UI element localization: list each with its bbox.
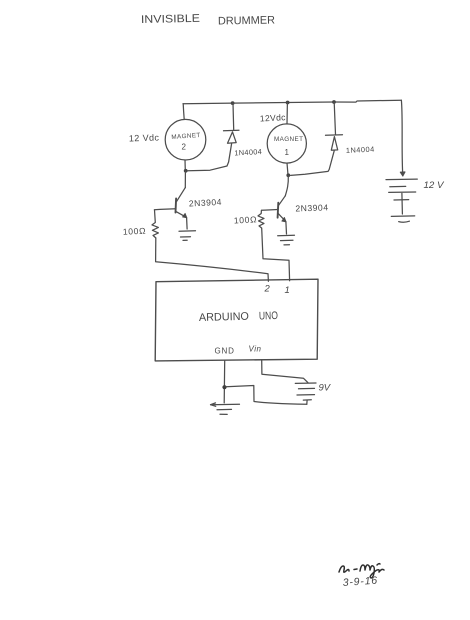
wire magnet1 bottom to node bbox=[287, 163, 288, 175]
node junction dot magnet1 tap bbox=[286, 101, 290, 105]
ground below 12V battery bbox=[391, 215, 414, 218]
diode D1 1N4004 bbox=[334, 102, 335, 134]
wire Q2 emitter down bbox=[186, 218, 189, 229]
signature scribble bbox=[339, 564, 384, 578]
wire node to Q1 collector bbox=[285, 176, 288, 196]
node junction dot below magnet2 bbox=[184, 169, 188, 173]
svg-text:1N4004: 1N4004 bbox=[346, 144, 375, 154]
node junction dot below magnet1 bbox=[286, 173, 290, 177]
diode D2 1N4004 bbox=[232, 103, 235, 129]
svg-text:3-9-16: 3-9-16 bbox=[342, 575, 378, 589]
wire top rail bbox=[183, 100, 401, 104]
svg-text:12 V: 12 V bbox=[424, 180, 446, 191]
svg-text:MAGNET: MAGNET bbox=[274, 136, 303, 143]
transistor Q1 2N3904 bbox=[279, 196, 286, 205]
wire rail to magnet1 top bbox=[286, 103, 288, 124]
svg-text:1N4004: 1N4004 bbox=[234, 147, 262, 157]
battery BT2 9V bbox=[295, 382, 316, 384]
magnet M1 coil circle bbox=[267, 124, 306, 163]
svg-text:2N3904: 2N3904 bbox=[189, 197, 223, 209]
wire GND pin down to ground bbox=[223, 361, 226, 403]
wire 9V negative back to GND node bbox=[226, 386, 307, 405]
resistor R1 100 ohm bbox=[258, 211, 264, 229]
wire rail left drop to magnet2 bbox=[183, 104, 184, 120]
svg-text:ARDUINO: ARDUINO bbox=[199, 311, 250, 324]
wire node to Q2 collector bbox=[184, 171, 186, 187]
svg-text:100Ω: 100Ω bbox=[123, 226, 147, 237]
wire Q1 base lead left bbox=[262, 209, 278, 212]
wire Q1 emitter down bbox=[285, 222, 288, 234]
svg-text:9V: 9V bbox=[319, 383, 332, 394]
node junction dot D1 tap bbox=[332, 100, 336, 104]
transistor Q2 2N3904 bbox=[177, 188, 186, 202]
wire R2 down and across to Arduino pin2 bbox=[156, 238, 269, 281]
svg-text:12Vdc: 12Vdc bbox=[260, 112, 287, 123]
wire magnet2 bottom to node bbox=[184, 160, 186, 171]
ground below Q1 emitter bbox=[278, 234, 295, 237]
wire Vin pin to 9V battery bbox=[262, 360, 308, 383]
svg-text:2N3904: 2N3904 bbox=[295, 202, 328, 213]
wire D1 anode to node bbox=[291, 151, 335, 176]
svg-text:INVISIBLE: INVISIBLE bbox=[141, 13, 200, 26]
node junction dot GND/9V return bbox=[222, 385, 226, 389]
op-amp U1 Arduino Uno box bbox=[155, 279, 318, 361]
svg-text:2: 2 bbox=[182, 143, 187, 152]
resistor R2 100 ohm bbox=[152, 210, 158, 238]
wire R1 down, jog right, into Arduino pin1 bbox=[262, 228, 290, 280]
svg-text:GND: GND bbox=[215, 347, 235, 356]
wire rail right corner down to 12V battery bbox=[401, 100, 402, 176]
svg-text:UNO: UNO bbox=[259, 310, 279, 323]
ground below GND pin bbox=[211, 403, 240, 406]
svg-text:1: 1 bbox=[285, 285, 290, 296]
svg-text:DRUMMER: DRUMMER bbox=[218, 15, 275, 28]
svg-text:1: 1 bbox=[285, 148, 290, 157]
svg-text:12 Vdc: 12 Vdc bbox=[129, 132, 160, 143]
title INVISIBLE DRUMMER bbox=[141, 13, 275, 28]
battery BT1 12V bbox=[386, 178, 417, 181]
svg-text:100Ω: 100Ω bbox=[234, 214, 258, 225]
node junction dot D2 tap bbox=[231, 101, 235, 105]
magnet M2 coil circle bbox=[165, 119, 206, 160]
svg-text:Vin: Vin bbox=[249, 345, 262, 354]
svg-text:2: 2 bbox=[264, 284, 271, 295]
ground below Q2 emitter bbox=[179, 230, 196, 232]
wire D2 anode to node bbox=[188, 144, 232, 171]
wire Q2 base lead left bbox=[154, 208, 175, 211]
